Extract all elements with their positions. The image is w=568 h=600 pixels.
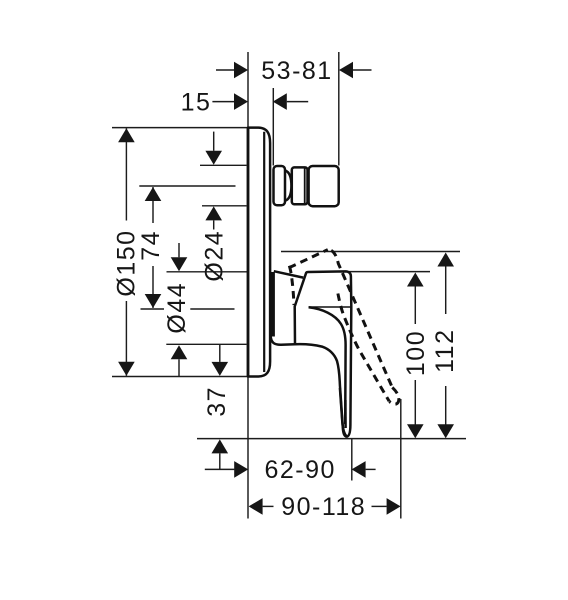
knob bottom extension line	[202, 205, 247, 207]
diverter knob dome	[285, 171, 291, 201]
handle center line	[141, 308, 235, 310]
wall plate side view	[248, 128, 270, 377]
handle escutcheon	[271, 272, 295, 345]
knob top extension line	[200, 164, 247, 166]
dimension 74	[137, 187, 165, 308]
plate top extension line	[112, 127, 248, 129]
handle neck top edge	[274, 271, 303, 277]
dashed handle top extension line	[281, 251, 460, 253]
dimension 112	[431, 253, 459, 439]
svg-text:15: 15	[181, 89, 212, 117]
svg-text:100: 100	[402, 330, 430, 376]
svg-text:53-81: 53-81	[261, 57, 332, 85]
dimension D24	[201, 132, 229, 282]
plate bottom extension line	[112, 376, 248, 378]
dimension 15	[181, 89, 309, 117]
dashed-tip extension line	[400, 399, 402, 519]
svg-text:112: 112	[431, 329, 459, 373]
svg-text:Ø24: Ø24	[201, 230, 229, 282]
dimension 53-81	[216, 57, 372, 85]
handle alternate position (dashed)	[289, 250, 399, 405]
diverter knob base	[274, 166, 286, 205]
knob center line	[139, 185, 235, 187]
diverter knob stem	[292, 167, 308, 204]
handle lever	[295, 271, 352, 436]
svg-text:Ø150: Ø150	[112, 229, 140, 296]
knob depth extension line	[338, 52, 340, 166]
svg-text:Ø44: Ø44	[163, 282, 191, 334]
dimension D150	[112, 128, 140, 375]
svg-text:74: 74	[137, 230, 165, 261]
handle tip extension line	[351, 439, 353, 481]
svg-text:90-118: 90-118	[281, 493, 366, 521]
knob front extension line	[272, 88, 274, 166]
dimension 100	[402, 273, 430, 439]
svg-text:37: 37	[203, 386, 231, 417]
dimension 62-90	[205, 456, 376, 484]
handle base top extension line	[167, 271, 248, 273]
handle base bottom extension line	[166, 343, 246, 345]
svg-text:62-90: 62-90	[264, 456, 335, 484]
dimension D44	[163, 243, 191, 377]
dimension 37	[203, 345, 231, 470]
diverter knob cap	[309, 166, 339, 206]
handle top extension line	[349, 271, 430, 273]
dimension 90-118	[249, 493, 401, 521]
wall extension line	[247, 52, 249, 519]
baseline extension line	[197, 438, 466, 440]
